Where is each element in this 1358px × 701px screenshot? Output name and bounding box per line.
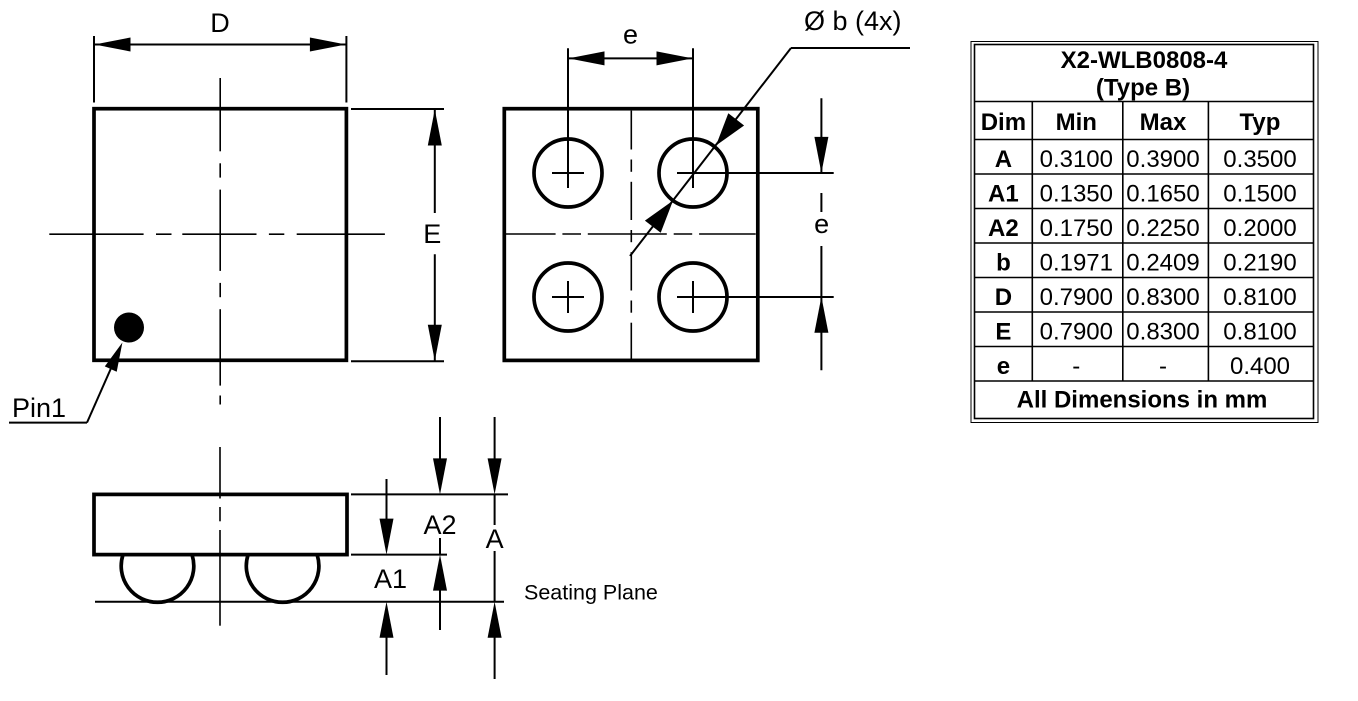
svg-text:D: D [995,284,1012,311]
svg-text:A1: A1 [374,564,407,594]
svg-text:b: b [996,250,1011,277]
svg-text:0.400: 0.400 [1230,353,1290,380]
svg-text:e: e [623,19,638,49]
svg-text:0.3900: 0.3900 [1126,146,1199,173]
svg-text:0.2000: 0.2000 [1223,215,1296,242]
svg-text:0.2409: 0.2409 [1126,250,1199,277]
svg-text:X2-WLB0808-4: X2-WLB0808-4 [1061,47,1228,74]
svg-text:Max: Max [1140,109,1187,136]
svg-text:0.2190: 0.2190 [1223,250,1296,277]
svg-text:Pin1: Pin1 [12,393,66,423]
svg-text:0.7900: 0.7900 [1040,284,1113,311]
svg-text:0.3500: 0.3500 [1223,146,1296,173]
svg-text:E: E [423,219,441,249]
svg-text:0.2250: 0.2250 [1126,215,1199,242]
svg-text:Min: Min [1056,109,1097,136]
svg-text:0.1350: 0.1350 [1040,181,1113,208]
svg-text:0.1750: 0.1750 [1040,215,1113,242]
svg-text:-: - [1072,353,1080,380]
svg-text:A: A [486,524,504,554]
svg-text:-: - [1159,353,1167,380]
svg-text:A1: A1 [988,181,1019,208]
svg-text:D: D [210,8,230,38]
svg-text:(Type B): (Type B) [1096,75,1190,102]
svg-text:Typ: Typ [1240,109,1281,136]
svg-text:0.3100: 0.3100 [1040,146,1113,173]
svg-text:Seating Plane: Seating Plane [524,581,658,605]
svg-text:e: e [997,353,1010,380]
svg-text:0.8100: 0.8100 [1223,319,1296,346]
svg-text:A: A [995,146,1012,173]
svg-text:0.7900: 0.7900 [1040,319,1113,346]
svg-text:Ø b (4x): Ø b (4x) [804,6,902,36]
svg-text:0.8300: 0.8300 [1126,319,1199,346]
svg-text:All Dimensions in mm: All Dimensions in mm [1017,387,1268,414]
svg-text:0.8300: 0.8300 [1126,284,1199,311]
svg-text:E: E [995,319,1011,346]
svg-text:A2: A2 [988,215,1019,242]
svg-text:0.1971: 0.1971 [1040,250,1113,277]
svg-text:0.8100: 0.8100 [1223,284,1296,311]
svg-text:0.1650: 0.1650 [1126,181,1199,208]
svg-text:e: e [814,209,829,239]
svg-text:0.1500: 0.1500 [1223,181,1296,208]
svg-text:Dim: Dim [981,109,1026,136]
svg-text:A2: A2 [423,510,456,540]
